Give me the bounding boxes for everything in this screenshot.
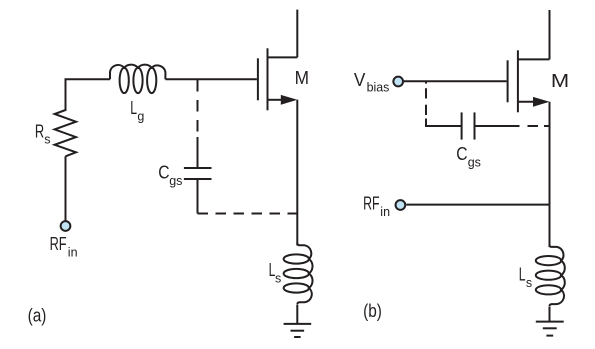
wire: Ls to ground (a)	[296, 305, 298, 324]
svg-text:(a): (a)	[28, 305, 47, 325]
source tap	[518, 101, 535, 103]
wire: Ls to ground (b)	[549, 307, 551, 322]
svg-text:in: in	[380, 205, 390, 219]
svg-text:V: V	[354, 70, 366, 90]
wire (dashed): gate node down to Cgs (a)	[197, 80, 199, 137]
svg-text:M: M	[295, 68, 309, 88]
svg-text:RF: RF	[50, 234, 67, 254]
svg-text:R: R	[35, 122, 44, 142]
svg-text:M: M	[551, 71, 569, 91]
wire: resistor top to Lg (corner)	[66, 79, 111, 111]
ground (a)	[284, 324, 312, 337]
terminal RFin (b)	[396, 200, 406, 210]
wire: RFin terminal up to resistor Rs bottom (a)	[65, 156, 67, 220]
wire: Vbias to gate of M (b)	[404, 80, 507, 82]
svg-text:s: s	[44, 133, 50, 147]
svg-text:C: C	[158, 163, 169, 183]
svg-text:L: L	[130, 98, 137, 118]
source arrow	[533, 97, 550, 107]
svg-text:g: g	[137, 110, 144, 124]
source arrow	[281, 95, 298, 105]
drain tap	[268, 56, 298, 58]
inductor Ls (b)	[536, 245, 565, 307]
gate plate	[257, 58, 259, 100]
inductor Ls (a)	[284, 243, 313, 305]
svg-text:L: L	[519, 264, 526, 284]
svg-text:s: s	[526, 276, 532, 290]
transistor M (a)	[258, 48, 297, 110]
source tap	[268, 99, 284, 101]
resistor Rs	[55, 110, 76, 156]
channel	[267, 48, 269, 110]
wire: drain stub up (b)	[549, 10, 551, 59]
capacitor Cgs (b)	[462, 112, 475, 139]
gate plate	[507, 60, 509, 102]
wire: Cgs right plate toward source (b)	[475, 125, 520, 127]
inductor Lg	[110, 65, 165, 94]
svg-text:in: in	[68, 245, 78, 259]
drain tap	[518, 58, 550, 60]
wire: Lg to gate of M (a)	[165, 78, 257, 80]
wire: corner to Cgs left plate (b)	[426, 119, 462, 127]
wire (dashed): gate node down to Cgs corner (b)	[425, 82, 427, 84]
terminal RFin (a)	[61, 221, 71, 231]
wire: RFin to source rail (b)	[406, 204, 549, 206]
svg-text:gs: gs	[169, 174, 182, 188]
svg-text:(b): (b)	[363, 301, 382, 321]
wire (dashed): Cgs to source node (a)	[198, 213, 298, 215]
wire: source down to Ls (b)	[549, 102, 551, 247]
svg-text:s: s	[275, 271, 281, 285]
wire: source down to Ls (a)	[296, 100, 298, 246]
wire: dashed to Cgs top plate (a)	[197, 137, 199, 168]
channel	[517, 50, 519, 112]
ground (b)	[536, 322, 564, 336]
wire: Cgs bottom plate down (a)	[197, 179, 199, 214]
svg-text:RF: RF	[363, 193, 380, 213]
capacitor Cgs (a)	[184, 168, 212, 179]
transistor M (b)	[508, 50, 550, 112]
terminal Vbias (b)	[393, 77, 403, 87]
svg-text:gs: gs	[468, 155, 481, 169]
svg-text:bias: bias	[367, 80, 390, 94]
svg-text:C: C	[456, 144, 467, 164]
wire: drain stub up (a)	[296, 10, 298, 58]
wire (dashed): to source node (b)	[528, 125, 539, 127]
